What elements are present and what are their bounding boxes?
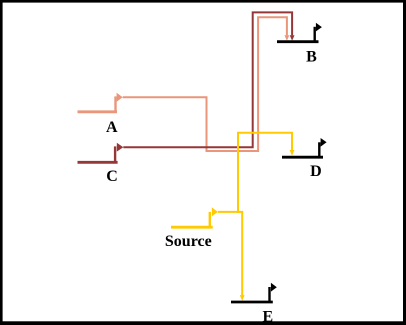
svg-text:Source: Source: [165, 233, 212, 250]
svg-text:C: C: [106, 168, 118, 185]
svg-text:D: D: [310, 163, 322, 180]
svg-text:E: E: [262, 308, 273, 325]
svg-text:B: B: [306, 48, 317, 65]
svg-text:A: A: [106, 119, 118, 136]
